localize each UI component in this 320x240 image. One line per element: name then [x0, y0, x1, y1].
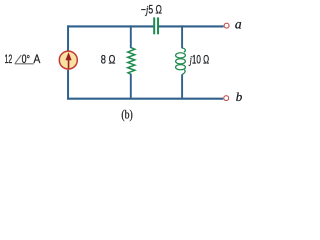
wire right branch lower	[181, 74, 183, 98]
inductor L j10 coil	[176, 48, 186, 74]
capacitor C -j5 plate left	[153, 17, 155, 34]
svg-text:0°: 0°	[22, 54, 31, 66]
resistor R 8ohm zigzag	[128, 48, 135, 75]
wire left branch lower	[67, 70, 69, 100]
svg-text:8 Ω: 8 Ω	[101, 55, 116, 67]
terminal b circle	[224, 96, 229, 101]
svg-text:−j5 Ω: −j5 Ω	[141, 3, 162, 17]
wire middle branch lower	[130, 74, 132, 99]
terminal a circle	[224, 23, 229, 28]
wire top left segment	[67, 25, 154, 27]
wire top right segment	[158, 25, 224, 27]
wire bottom	[67, 98, 223, 100]
wire right branch upper	[181, 25, 183, 48]
current source I1 circle	[59, 51, 77, 69]
svg-text:j10 Ω: j10 Ω	[188, 55, 209, 67]
wire middle branch upper	[130, 25, 132, 48]
svg-text:12: 12	[5, 54, 13, 66]
wire left branch upper	[67, 25, 69, 50]
svg-text:(b): (b)	[121, 107, 132, 122]
svg-text:b: b	[236, 89, 243, 104]
svg-text:a: a	[235, 16, 242, 31]
current source arrow	[66, 52, 72, 68]
svg-text:A: A	[34, 54, 41, 66]
capacitor C -j5 plate right	[157, 17, 159, 34]
angle symbol	[15, 55, 34, 64]
